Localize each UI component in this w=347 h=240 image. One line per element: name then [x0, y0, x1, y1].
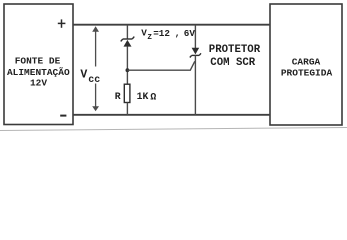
svg-text:cc: cc	[88, 75, 100, 86]
terminal -: negative terminal of source	[60, 115, 66, 117]
wire: SCR cathode down to bottom rail	[194, 55, 196, 114]
wire: gate wire from node to SCR gate	[127, 61, 194, 70]
label: FONTE DE ALIMENTAÇÃO 12V	[7, 56, 70, 89]
Vcc dimension arrow (between rails)	[92, 26, 99, 111]
block: carga protegida (load box)	[270, 4, 342, 125]
svg-text:V: V	[80, 68, 87, 81]
wire: resistor bottom to bottom rail	[126, 103, 128, 115]
svg-text:PROTEGIDA: PROTEGIDA	[281, 67, 333, 78]
SCR (thyristor)	[190, 48, 201, 58]
svg-text:Ω: Ω	[150, 92, 156, 103]
junction: gate node on zener/resistor branch	[126, 68, 130, 72]
wire: top rail (+) from source to load	[73, 24, 270, 26]
svg-text:6V: 6V	[184, 28, 196, 39]
svg-text:V: V	[141, 28, 147, 39]
svg-text:1K: 1K	[137, 91, 149, 102]
svg-text:R: R	[115, 91, 121, 102]
scan artifact: faint page line at bottom	[0, 128, 347, 131]
svg-text:COM SCR: COM SCR	[210, 57, 255, 69]
svg-text:FONTE DE: FONTE DE	[15, 56, 61, 67]
svg-text:Z: Z	[147, 34, 152, 42]
terminal +: positive terminal of source	[58, 19, 66, 27]
zener diode (Vz = 12,6V)	[121, 37, 135, 47]
wire: bottom rail (-) from source to load	[73, 114, 270, 116]
svg-text:,: ,	[175, 28, 181, 39]
wire: SCR anode branch from top rail	[194, 25, 196, 48]
svg-text:PROTETOR: PROTETOR	[209, 44, 261, 56]
label: PROTETOR COM SCR	[209, 44, 261, 69]
wire: zener anode down to gate node and resistor	[126, 46, 128, 84]
block: fonte de alimentação (source box)	[4, 4, 73, 125]
resistor R	[124, 84, 130, 102]
label Vcc	[80, 68, 100, 86]
svg-text:ALIMENTAÇÃO: ALIMENTAÇÃO	[7, 67, 70, 78]
label: CARGA PROTEGIDA	[281, 56, 333, 78]
label Vz = 12,6V	[141, 28, 195, 43]
svg-text:=12: =12	[153, 28, 170, 39]
svg-text:12V: 12V	[30, 78, 47, 89]
svg-text:CARGA: CARGA	[292, 56, 321, 67]
wire: zener branch from top rail down to zener	[126, 25, 128, 39]
